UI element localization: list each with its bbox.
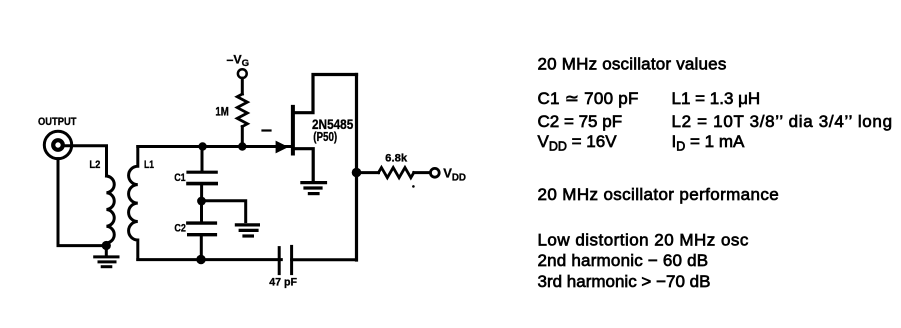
svg-text:L1: L1	[144, 159, 154, 171]
junction: VDD node on right rail	[352, 168, 362, 178]
wire: connector pin to L2 top	[64, 146, 107, 176]
svg-text:L2: L2	[89, 159, 100, 171]
inductor L2	[107, 176, 115, 246]
svg-text:2nd harmonic − 60 dB: 2nd harmonic − 60 dB	[538, 251, 709, 270]
svg-text:–VG: –VG	[227, 52, 250, 69]
gate dash mark	[263, 129, 271, 131]
svg-text:6.8k: 6.8k	[385, 153, 408, 165]
wire: gate rail (L1 top to Q1 gate)	[138, 145, 291, 148]
resistor R2 6.8k	[379, 168, 414, 178]
text block: oscillator values and performance	[538, 54, 893, 291]
junction: gate rail / R1	[238, 142, 246, 150]
svg-text:VDD = 16V: VDD = 16V	[538, 132, 618, 154]
svg-text:3rd harmonic > −70 dB: 3rd harmonic > −70 dB	[538, 272, 711, 291]
svg-text:L1 = 1.3 μH: L1 = 1.3 μH	[672, 89, 761, 108]
wire: drain lead of Q1	[293, 75, 357, 113]
ground GND2 (C1/C2 node)	[236, 225, 258, 236]
terminal VDD	[430, 168, 439, 177]
svg-text:L2 = 10T 3/8’’ dia 3/4’’ long: L2 = 10T 3/8’’ dia 3/4’’ long	[672, 112, 893, 131]
wire: bottom rail left (L1 bottom to C3)	[138, 258, 281, 261]
transistor Q1 gate arrow	[276, 141, 289, 154]
capacitor C1	[188, 147, 216, 200]
svg-text:(P50): (P50)	[313, 129, 337, 144]
svg-text:20 MHz oscillator values: 20 MHz oscillator values	[538, 54, 727, 73]
terminal -VG	[238, 69, 247, 78]
wire: bottom rail right (C3 to right rail)	[292, 258, 357, 261]
svg-text:47 pF: 47 pF	[269, 277, 297, 289]
junction: L2 bottom / ground node	[102, 241, 111, 250]
svg-text:1M: 1M	[215, 107, 228, 119]
wire: connector shield to ground node	[58, 159, 102, 246]
junction: C2 bottom on bottom rail	[196, 255, 205, 264]
inductor L1	[129, 147, 138, 260]
wire: R1 to gate rail	[241, 127, 244, 147]
connector J1 OUTPUT	[44, 131, 71, 158]
svg-text:C1: C1	[174, 172, 186, 184]
wire: right rail (drain top to bottom rail)	[355, 75, 358, 261]
wire: C1-C2 node to GND2	[202, 201, 246, 222]
wire: -VG terminal to R1	[241, 78, 244, 94]
svg-text:OUTPUT: OUTPUT	[38, 116, 77, 128]
capacitor C2	[188, 201, 216, 260]
svg-text:C2: C2	[174, 223, 186, 235]
resistor R1 1M	[237, 94, 247, 127]
ground GND1 (output coil)	[95, 249, 118, 267]
speck artifact near R2	[412, 185, 415, 188]
svg-text:Low distortion 20 MHz osc: Low distortion 20 MHz osc	[538, 231, 749, 250]
ground GND3 (Q1 source)	[302, 183, 326, 194]
wire: source lead of Q1	[293, 149, 313, 181]
capacitor C3 47 pF	[279, 246, 291, 273]
wire: VDD node to R2	[357, 171, 379, 174]
svg-text:C1 ≃ 700 pF: C1 ≃ 700 pF	[538, 89, 639, 108]
wire: R2 to VDD terminal	[414, 171, 430, 174]
junction: gate rail / C1	[198, 142, 206, 150]
transistor Q1 channel bar	[291, 107, 295, 154]
svg-text:VDD: VDD	[443, 166, 466, 184]
svg-text:20 MHz oscillator performance: 20 MHz oscillator performance	[538, 185, 780, 204]
junction: C1/C2/ground node	[197, 197, 206, 206]
svg-text:C2 = 75 pF: C2 = 75 pF	[538, 112, 623, 131]
svg-text:ID = 1 mA: ID = 1 mA	[672, 132, 745, 154]
